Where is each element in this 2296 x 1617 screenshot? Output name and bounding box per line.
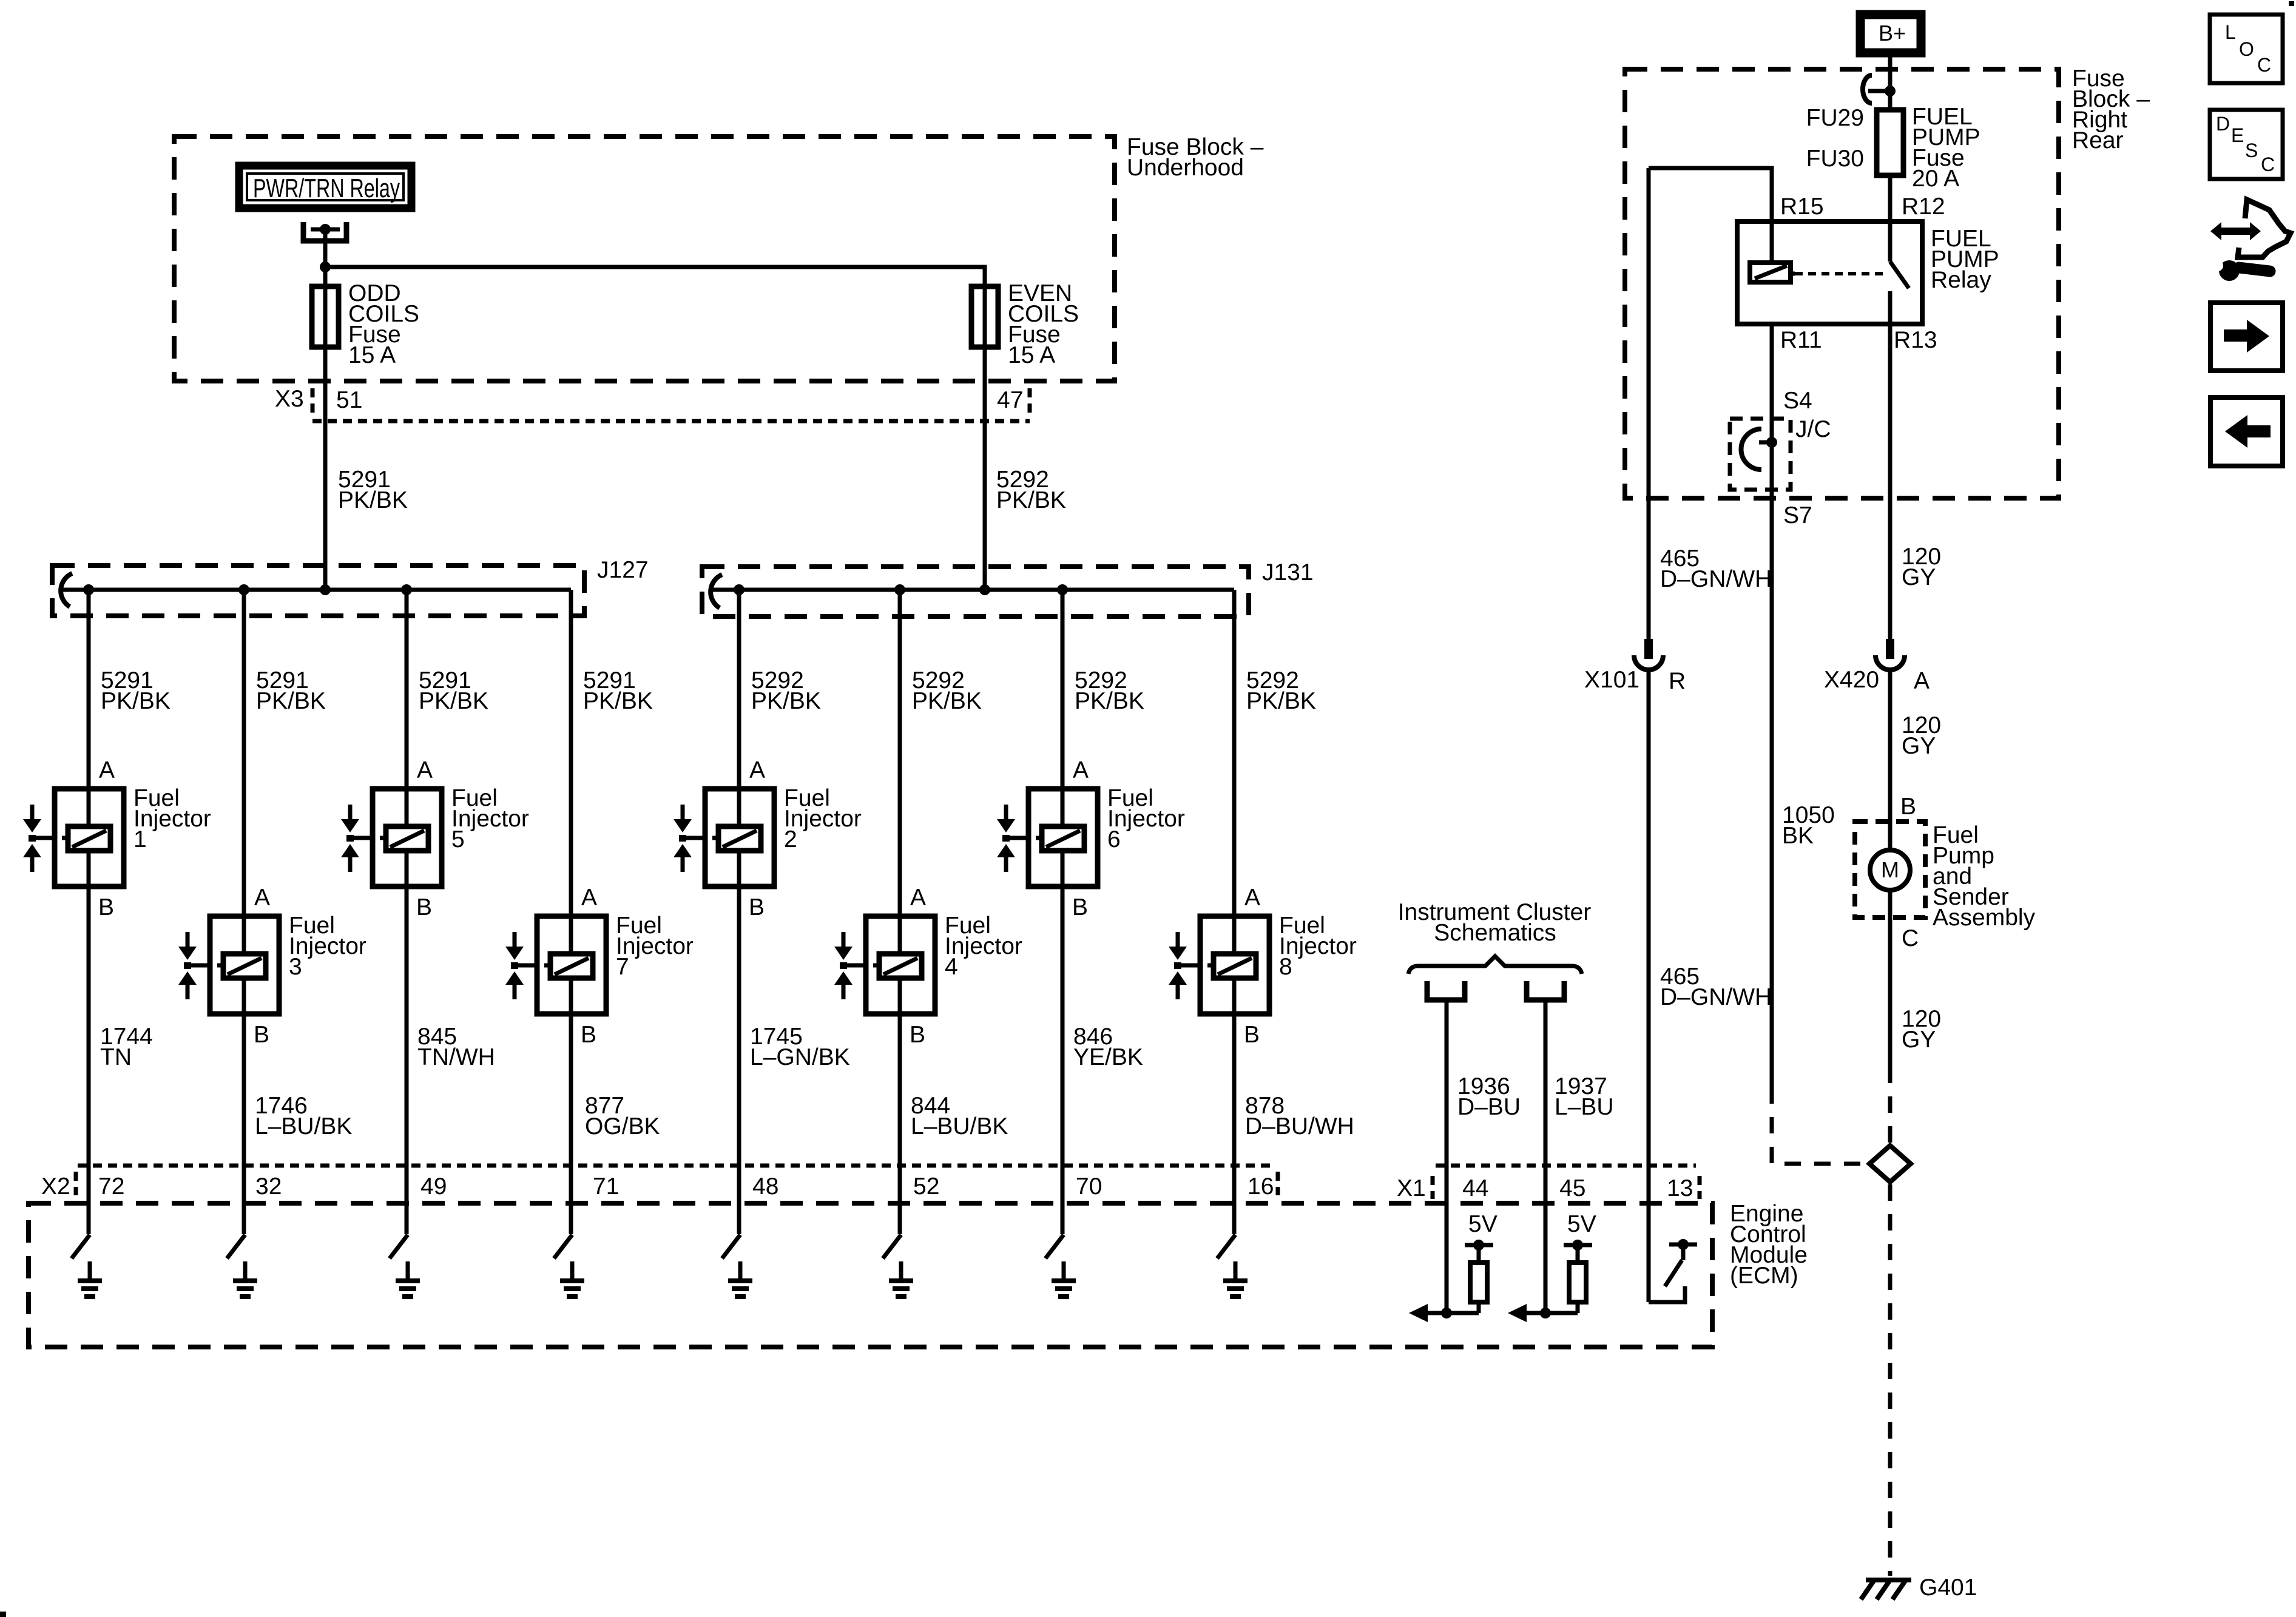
svg-text:M: M bbox=[1881, 857, 1899, 882]
svg-text:FU30: FU30 bbox=[1806, 146, 1864, 172]
svg-text:S: S bbox=[2245, 140, 2258, 161]
svg-text:C: C bbox=[2261, 154, 2275, 175]
svg-text:6: 6 bbox=[1107, 826, 1121, 852]
svg-text:GY: GY bbox=[1902, 733, 1936, 759]
svg-text:PK/BK: PK/BK bbox=[419, 688, 488, 714]
svg-text:OG/BK: OG/BK bbox=[585, 1113, 660, 1139]
svg-text:Schematics: Schematics bbox=[1434, 920, 1556, 946]
svg-text:47: 47 bbox=[997, 387, 1023, 413]
svg-text:1: 1 bbox=[133, 826, 147, 852]
svg-text:TN: TN bbox=[100, 1044, 132, 1070]
svg-text:X3: X3 bbox=[275, 386, 304, 412]
svg-text:PK/BK: PK/BK bbox=[751, 688, 821, 714]
svg-text:70: 70 bbox=[1076, 1173, 1102, 1200]
svg-text:R12: R12 bbox=[1902, 194, 1945, 220]
svg-text:16: 16 bbox=[1248, 1173, 1274, 1200]
svg-text:B: B bbox=[1072, 894, 1088, 920]
svg-text:13: 13 bbox=[1667, 1175, 1693, 1201]
svg-text:D–BU/WH: D–BU/WH bbox=[1245, 1113, 1354, 1139]
svg-text:R13: R13 bbox=[1894, 327, 1937, 353]
svg-text:A: A bbox=[99, 757, 115, 783]
svg-text:B: B bbox=[910, 1022, 925, 1048]
svg-text:A: A bbox=[417, 757, 433, 783]
svg-text:48: 48 bbox=[752, 1173, 778, 1200]
svg-text:A: A bbox=[910, 885, 926, 911]
svg-text:15 A: 15 A bbox=[348, 342, 396, 368]
svg-text:J131: J131 bbox=[1262, 559, 1314, 586]
svg-text:D: D bbox=[2216, 113, 2230, 135]
svg-text:PK/BK: PK/BK bbox=[1075, 688, 1144, 714]
svg-text:B+: B+ bbox=[1879, 21, 1906, 46]
svg-text:L: L bbox=[2225, 21, 2236, 43]
svg-text:PWR/TRN Relay: PWR/TRN Relay bbox=[253, 174, 400, 203]
svg-text:44: 44 bbox=[1462, 1175, 1488, 1201]
svg-text:Relay: Relay bbox=[1931, 267, 1991, 293]
svg-text:R15: R15 bbox=[1780, 194, 1824, 220]
svg-text:52: 52 bbox=[913, 1173, 939, 1200]
svg-text:B: B bbox=[98, 894, 114, 920]
svg-text:PK/BK: PK/BK bbox=[912, 688, 982, 714]
svg-text:5V: 5V bbox=[1567, 1211, 1596, 1237]
svg-text:PK/BK: PK/BK bbox=[256, 688, 326, 714]
svg-text:32: 32 bbox=[255, 1173, 282, 1200]
svg-text:A: A bbox=[1073, 757, 1089, 783]
svg-text:S4: S4 bbox=[1783, 388, 1812, 414]
svg-text:D–GN/WH: D–GN/WH bbox=[1660, 566, 1772, 592]
svg-text:GY: GY bbox=[1902, 564, 1936, 590]
svg-text:Underhood: Underhood bbox=[1127, 155, 1244, 181]
svg-text:X2: X2 bbox=[41, 1173, 70, 1200]
svg-text:A: A bbox=[254, 885, 270, 911]
svg-text:45: 45 bbox=[1559, 1175, 1585, 1201]
svg-text:L–BU: L–BU bbox=[1555, 1094, 1614, 1120]
svg-text:49: 49 bbox=[420, 1173, 447, 1200]
svg-text:PK/BK: PK/BK bbox=[583, 688, 653, 714]
svg-text:A: A bbox=[749, 757, 765, 783]
svg-text:PK/BK: PK/BK bbox=[996, 487, 1066, 513]
svg-text:J127: J127 bbox=[597, 557, 649, 583]
svg-text:R11: R11 bbox=[1780, 327, 1822, 353]
svg-text:J/C: J/C bbox=[1795, 416, 1831, 442]
svg-text:PK/BK: PK/BK bbox=[338, 487, 408, 513]
svg-text:YE/BK: YE/BK bbox=[1073, 1044, 1143, 1070]
svg-text:A: A bbox=[581, 885, 597, 911]
svg-text:O: O bbox=[2239, 38, 2254, 60]
svg-text:G401: G401 bbox=[1919, 1575, 1977, 1601]
svg-text:D–GN/WH: D–GN/WH bbox=[1660, 984, 1772, 1010]
svg-text:B: B bbox=[1900, 794, 1916, 820]
svg-text:20 A: 20 A bbox=[1912, 166, 1959, 192]
svg-text:B: B bbox=[749, 894, 765, 920]
svg-text:PK/BK: PK/BK bbox=[1246, 688, 1316, 714]
svg-text:Assembly: Assembly bbox=[1933, 905, 2036, 931]
svg-text:GY: GY bbox=[1902, 1027, 1936, 1053]
svg-text:51: 51 bbox=[336, 387, 362, 413]
svg-text:X101: X101 bbox=[1584, 667, 1639, 693]
svg-text:L–BU/BK: L–BU/BK bbox=[911, 1113, 1008, 1139]
svg-text:B: B bbox=[254, 1022, 269, 1048]
svg-text:C: C bbox=[2257, 54, 2271, 76]
svg-text:R: R bbox=[1669, 668, 1686, 694]
svg-text:8: 8 bbox=[1279, 954, 1292, 980]
svg-text:L–GN/BK: L–GN/BK bbox=[750, 1044, 850, 1070]
svg-text:D–BU: D–BU bbox=[1457, 1094, 1521, 1120]
svg-text:B: B bbox=[581, 1022, 596, 1048]
svg-text:72: 72 bbox=[98, 1173, 124, 1200]
svg-text:B: B bbox=[1244, 1022, 1260, 1048]
svg-text:X420: X420 bbox=[1824, 667, 1879, 693]
svg-text:TN/WH: TN/WH bbox=[417, 1044, 495, 1070]
svg-text:A: A bbox=[1914, 668, 1930, 694]
svg-text:2: 2 bbox=[784, 826, 797, 852]
svg-text:B: B bbox=[416, 894, 432, 920]
svg-text:PK/BK: PK/BK bbox=[101, 688, 171, 714]
svg-text:BK: BK bbox=[1782, 823, 1814, 849]
svg-text:71: 71 bbox=[593, 1173, 619, 1200]
svg-text:C: C bbox=[1902, 925, 1919, 951]
svg-text:S7: S7 bbox=[1783, 502, 1812, 528]
svg-text:5V: 5V bbox=[1468, 1211, 1497, 1237]
svg-text:FU29: FU29 bbox=[1806, 105, 1864, 131]
svg-text:3: 3 bbox=[289, 954, 302, 980]
svg-text:L–BU/BK: L–BU/BK bbox=[255, 1113, 352, 1139]
svg-text:15 A: 15 A bbox=[1008, 342, 1055, 368]
svg-text:X1: X1 bbox=[1397, 1175, 1426, 1201]
svg-text:Rear: Rear bbox=[2072, 127, 2124, 154]
svg-text:4: 4 bbox=[945, 954, 958, 980]
svg-text:5: 5 bbox=[451, 826, 465, 852]
svg-text:A: A bbox=[1244, 885, 1260, 911]
svg-text:E: E bbox=[2231, 124, 2244, 146]
svg-text:7: 7 bbox=[616, 954, 629, 980]
svg-text:(ECM): (ECM) bbox=[1730, 1263, 1798, 1289]
